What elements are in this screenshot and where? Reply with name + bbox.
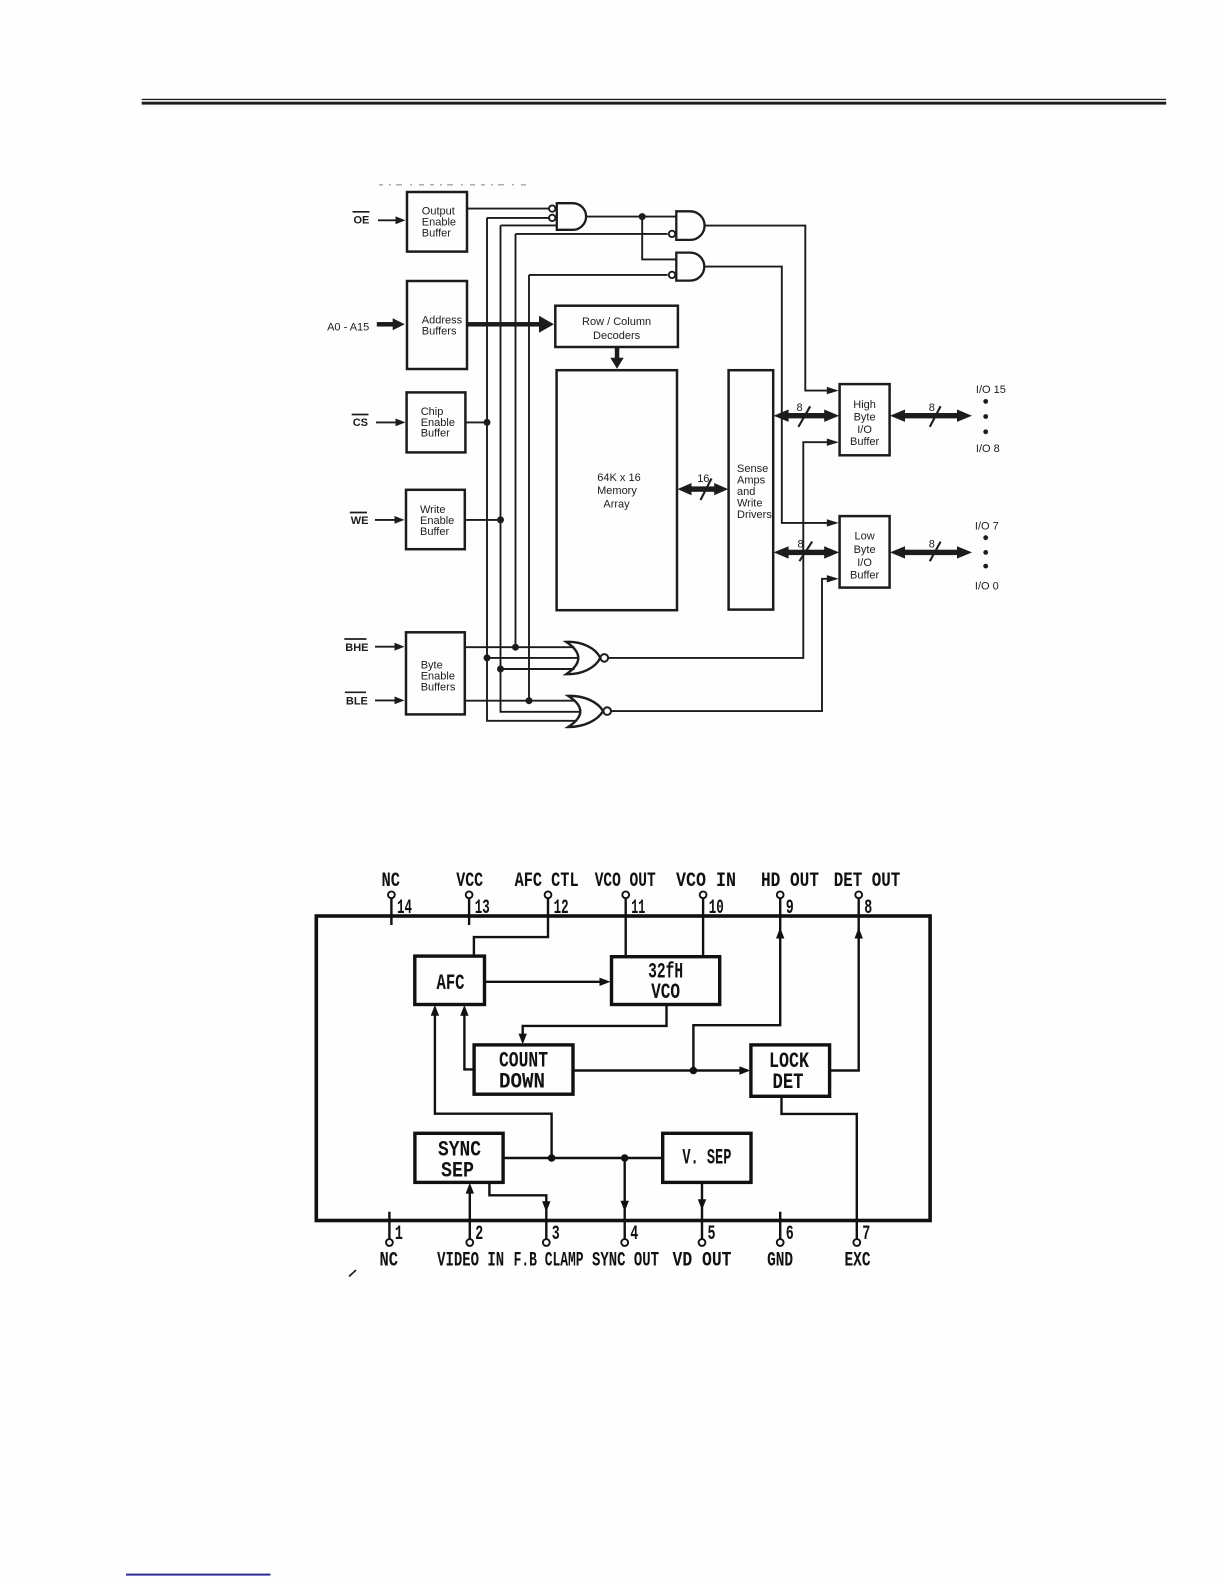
svg-text:I/O 15: I/O 15	[976, 384, 1006, 396]
svg-text:AFC: AFC	[437, 971, 465, 996]
svg-text:Sense: Sense	[737, 463, 768, 475]
svg-text:13: 13	[475, 897, 490, 920]
svg-text:and: and	[737, 486, 755, 498]
svg-text:1: 1	[395, 1223, 403, 1246]
svg-text:DET: DET	[773, 1070, 804, 1095]
svg-text:Buffer: Buffer	[850, 436, 879, 448]
svg-text:VCO: VCO	[651, 980, 680, 1005]
svg-text:6: 6	[786, 1223, 794, 1246]
svg-text:AFC CTL: AFC CTL	[515, 870, 579, 893]
svg-text:64K x 16: 64K x 16	[597, 472, 640, 484]
svg-text:Drivers: Drivers	[737, 509, 772, 521]
svg-text:Memory: Memory	[597, 485, 637, 497]
svg-text:Byte: Byte	[854, 544, 876, 556]
svg-text:High: High	[853, 399, 876, 411]
svg-text:VIDEO IN: VIDEO IN	[437, 1250, 504, 1273]
svg-text:F.B CLAMP: F.B CLAMP	[514, 1250, 584, 1273]
svg-text:SYNC OUT: SYNC OUT	[592, 1250, 659, 1273]
svg-text:I/O 7: I/O 7	[975, 521, 999, 533]
svg-text:NC: NC	[380, 1250, 399, 1273]
svg-text:HD OUT: HD OUT	[761, 870, 819, 893]
svg-text:V. SEP: V. SEP	[682, 1146, 731, 1171]
svg-text:Amps: Amps	[737, 474, 766, 486]
svg-text:GND: GND	[767, 1250, 793, 1273]
svg-text:4: 4	[630, 1223, 638, 1246]
svg-text:Array: Array	[603, 498, 630, 510]
svg-text:CS: CS	[353, 417, 368, 429]
svg-text:Byte: Byte	[854, 412, 876, 424]
svg-text:I/O: I/O	[857, 557, 872, 569]
svg-text:3: 3	[552, 1223, 560, 1246]
svg-text:VCO IN: VCO IN	[676, 870, 736, 893]
svg-text:Buffer: Buffer	[420, 526, 449, 538]
svg-text:2: 2	[475, 1223, 483, 1246]
svg-text:I/O 8: I/O 8	[976, 443, 1000, 455]
svg-text:10: 10	[709, 897, 724, 920]
svg-text:12: 12	[554, 897, 569, 920]
svg-text:11: 11	[631, 897, 645, 920]
svg-text:Buffers: Buffers	[421, 682, 456, 694]
svg-text:BHE: BHE	[345, 642, 368, 654]
svg-text:5: 5	[708, 1223, 716, 1246]
svg-text:Write: Write	[737, 498, 762, 510]
svg-text:I/O 0: I/O 0	[975, 580, 999, 592]
svg-text:8: 8	[864, 897, 872, 920]
svg-text:Buffer: Buffer	[850, 570, 879, 582]
svg-text:Low: Low	[855, 530, 875, 542]
svg-text:Row / Column: Row / Column	[582, 316, 651, 328]
svg-text:DET OUT: DET OUT	[834, 870, 901, 893]
svg-text:8: 8	[798, 538, 804, 550]
svg-text:EXC: EXC	[845, 1250, 871, 1273]
svg-text:NC: NC	[382, 870, 401, 893]
svg-text:Buffers: Buffers	[422, 326, 457, 338]
svg-text:7: 7	[862, 1223, 870, 1246]
svg-text:I/O: I/O	[857, 424, 872, 436]
svg-text:8: 8	[797, 402, 803, 414]
svg-text:Buffer: Buffer	[422, 227, 451, 239]
svg-text:14: 14	[397, 897, 412, 920]
svg-text:9: 9	[786, 897, 794, 920]
svg-text:VCO OUT: VCO OUT	[595, 870, 656, 893]
svg-text:A0 - A15: A0 - A15	[327, 322, 369, 334]
svg-text:VCC: VCC	[456, 870, 483, 893]
svg-text:16: 16	[697, 473, 709, 485]
svg-text:8: 8	[929, 402, 935, 414]
svg-text:Decoders: Decoders	[593, 330, 641, 342]
svg-text:OE: OE	[354, 214, 370, 226]
svg-text:WE: WE	[351, 515, 369, 527]
svg-text:BLE: BLE	[346, 695, 368, 707]
svg-text:SEP: SEP	[441, 1159, 474, 1184]
svg-text:8: 8	[929, 538, 935, 550]
svg-text:DOWN: DOWN	[499, 1070, 545, 1095]
svg-text:Buffer: Buffer	[421, 428, 450, 440]
svg-text:VD OUT: VD OUT	[673, 1250, 732, 1273]
